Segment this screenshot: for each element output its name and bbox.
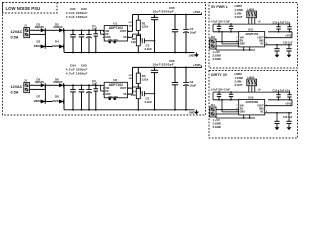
wire SS pin (ch2) — [128, 87, 133, 94]
dashed border block DIRTY 3V — [209, 71, 298, 139]
wire positive rail (ch1) — [64, 29, 104, 31]
op-amp regulator U1 — [103, 21, 129, 41]
wire U10 output (DIRTY 3V) — [265, 100, 292, 106]
wire U11 sense rail right (5V PWR L) — [265, 42, 293, 46]
svg-text:3:GND: 3:GND — [213, 125, 221, 129]
svg-text:0.5A: 0.5A — [11, 36, 19, 40]
wire VOUT to output rail (ch2) — [128, 67, 134, 88]
svg-text:2:GND: 2:GND — [213, 54, 221, 58]
label block title DIRTY 3V — [211, 73, 228, 77]
wire AC2 (ch2) — [30, 88, 46, 90]
svg-text:ADM7150: ADM7150 — [245, 32, 258, 36]
wire J11 to U10 (DIRTY 3V) — [216, 99, 239, 118]
svg-text:D4: D4 — [55, 40, 59, 44]
svg-text:U1: U1 — [113, 21, 117, 25]
svg-text:DIRTY 3V: DIRTY 3V — [211, 73, 228, 77]
wire J10 to U11 (5V PWR L) — [216, 31, 239, 50]
svg-text:RB520: RB520 — [54, 80, 63, 84]
diode D3 — [34, 40, 46, 49]
capacitor C63 — [79, 85, 85, 110]
capacitor C2 — [94, 85, 99, 110]
svg-text:1:+5V: 1:+5V — [213, 118, 220, 122]
svg-text:LM50: LM50 — [235, 72, 243, 76]
junction dots ground rail (ch1) — [72, 52, 187, 54]
svg-text:5V PWR L: 5V PWR L — [211, 5, 229, 9]
capacitor input pair left (DIRTY 3V) — [211, 89, 233, 100]
wire U11 output (5V PWR L) — [265, 32, 292, 38]
label capacitor C2 value — [92, 79, 97, 86]
svg-text:NC: NC — [260, 112, 264, 114]
diode D2 — [54, 22, 64, 32]
wire U11 gnd down (5V PWR L) — [216, 47, 255, 51]
text 12VAC 0.5A input label (ch1) — [11, 30, 23, 40]
capacitor C7 — [172, 15, 178, 53]
junction dots right caps (DIRTY 3V) — [278, 91, 291, 100]
svg-text:D8: D8 — [55, 95, 59, 99]
label block title 5V PWR L — [211, 5, 229, 9]
pin GND stubs below U2 — [108, 96, 118, 100]
diode D7 — [34, 95, 46, 104]
svg-text:VIN: VIN — [240, 38, 244, 40]
wire bridge right vertical (ch1) — [63, 30, 65, 52]
label LM50 pin list (5V PWR L) — [235, 4, 243, 19]
capacitor C8 output rail — [151, 67, 158, 109]
svg-text:J11: J11 — [211, 103, 216, 107]
label caps C61 C62 values — [66, 7, 88, 19]
svg-text:4.7uF 1500uF: 4.7uF 1500uF — [66, 15, 88, 19]
diode D4 — [52, 40, 63, 49]
capacitor output pair to ground (5V PWR L) — [274, 45, 291, 58]
svg-text:C15 4.7uF C14: C15 4.7uF C14 — [273, 90, 291, 93]
label J10 pin list (5V PWR L) — [213, 50, 221, 61]
capacitor C4 output rail — [151, 15, 158, 53]
svg-text:SS: SS — [123, 36, 127, 39]
svg-text:D7: D7 — [37, 95, 41, 99]
connector J11 (DIRTY 3V) — [210, 103, 216, 117]
svg-text:RB520: RB520 — [35, 25, 44, 29]
svg-text:3:OUT: 3:OUT — [235, 15, 243, 19]
svg-text:VIN: VIN — [240, 106, 244, 108]
svg-text:4.7uF 25V 4.7uF: 4.7uF 25V 4.7uF — [211, 21, 230, 24]
label output net +5VA — [193, 10, 201, 14]
svg-text:2:VIN: 2:VIN — [235, 12, 242, 16]
svg-text:3:GND: 3:GND — [213, 57, 221, 61]
svg-text:2.2uF: 2.2uF — [145, 100, 153, 104]
svg-text:+5VB: +5VB — [193, 63, 202, 67]
junction dots output rail (ch2) — [154, 67, 187, 69]
svg-text:LM50: LM50 — [248, 75, 255, 79]
svg-text:10uF/2200pF: 10uF/2200pF — [153, 10, 174, 14]
svg-text:C15 4.7uF C14: C15 4.7uF C14 — [273, 22, 291, 25]
capacitor output pair to ground (DIRTY 3V) — [274, 113, 291, 130]
wire divider junction (ch2) — [133, 83, 139, 88]
svg-text:D3: D3 — [37, 40, 41, 44]
capacitor C5 electrolytic — [183, 15, 196, 53]
wire U10 sense rail right (DIRTY 3V) — [265, 112, 293, 119]
capacitor C62 — [79, 30, 85, 52]
svg-text:4.7uF 1500uF: 4.7uF 1500uF — [66, 72, 88, 76]
wire U10 gnd down (DIRTY 3V) — [216, 115, 255, 119]
svg-text:121k: 121k — [142, 25, 149, 29]
junction dots ground rail (ch2) — [72, 109, 187, 111]
svg-text:EN: EN — [240, 109, 244, 111]
junction dots positive rail (ch2) — [63, 84, 97, 86]
ground rail (ch2) — [64, 109, 195, 111]
pin GND stubs below U1 — [108, 40, 118, 44]
svg-text:VOUT: VOUT — [120, 87, 127, 90]
svg-text:VOUT: VOUT — [257, 106, 264, 108]
wire sensor pins down (5V PWR L) — [249, 18, 261, 24]
wire upper distribution rail (5V PWR L) — [213, 23, 290, 25]
svg-text:J10: J10 — [211, 35, 216, 39]
svg-text:RB520: RB520 — [54, 25, 63, 29]
svg-text:4.7uF 25V 4.7uF: 4.7uF 25V 4.7uF — [211, 89, 230, 92]
wire left lower rail (5V PWR L) — [213, 24, 239, 32]
wire left lower rail (DIRTY 3V) — [213, 92, 239, 100]
svg-text:+5VD: +5VD — [285, 34, 292, 38]
wire positive rail (ch2) — [64, 84, 104, 86]
diode D8 — [52, 95, 63, 104]
svg-text:3:OUT: 3:OUT — [235, 83, 243, 87]
wire bridge row2 (ch1) — [34, 46, 64, 48]
resistor R3 — [136, 67, 148, 83]
wire bridge top mid (ch1) — [45, 29, 59, 31]
svg-text:GND: GND — [240, 112, 245, 114]
junction dots output rail (ch1) — [154, 14, 187, 16]
svg-text:0.5A: 0.5A — [11, 91, 19, 95]
svg-text:12VAC: 12VAC — [11, 30, 23, 34]
wire sensor pins down (DIRTY 3V) — [249, 86, 261, 92]
svg-text:121k: 121k — [142, 78, 149, 82]
svg-text:2:GND: 2:GND — [213, 122, 221, 126]
dashed border block 5V PWR L — [209, 3, 298, 69]
svg-text:10uF: 10uF — [190, 30, 197, 34]
junction dots left caps (DIRTY 3V) — [218, 91, 232, 100]
svg-text:1:+5V: 1:+5V — [213, 50, 220, 54]
svg-text:EN: EN — [240, 41, 244, 43]
svg-text:2:VIN: 2:VIN — [235, 80, 242, 84]
capacitor C64 — [70, 85, 76, 110]
svg-text:12k: 12k — [131, 40, 136, 44]
wire SS pin (ch1) — [128, 35, 133, 38]
label output caps C66 value (ch2) — [153, 59, 175, 67]
capacitor C9 — [172, 67, 178, 109]
svg-text:LM50: LM50 — [235, 4, 243, 8]
label output net +5VB — [193, 63, 202, 67]
svg-text:GND GND: GND GND — [108, 40, 118, 42]
ground symbol (ch2) — [189, 110, 199, 115]
capacitor pair right (DIRTY 3V) — [268, 90, 292, 100]
svg-text:LM50: LM50 — [248, 7, 255, 11]
connector J10 (5V PWR L) — [210, 35, 216, 49]
svg-text:GND: GND — [189, 53, 195, 57]
svg-text:12VAC: 12VAC — [11, 85, 23, 89]
svg-text:1:GND: 1:GND — [235, 8, 243, 12]
capacitor C6 electrolytic — [183, 67, 196, 109]
svg-text:SNS: SNS — [129, 25, 134, 27]
wire bridge row2 (ch2) — [34, 101, 64, 103]
svg-text:NC: NC — [260, 44, 264, 46]
wire EN pin jog (ch2) — [101, 85, 105, 91]
svg-text:SS: SS — [123, 93, 127, 96]
connector J2 — [24, 78, 30, 92]
svg-text:U11: U11 — [248, 28, 254, 32]
svg-text:OUT: OUT — [129, 75, 134, 77]
label J11 pin list (DIRTY 3V) — [213, 118, 221, 129]
svg-text:LOW NOISE PSU: LOW NOISE PSU — [6, 6, 41, 11]
wire AC2 (ch1) — [30, 33, 46, 35]
op-amp regulator U10 (DIRTY 3V) — [236, 96, 268, 115]
wire EN pin jog (ch1) — [101, 30, 105, 34]
svg-text:GND: GND — [189, 111, 195, 115]
left block title box — [3, 3, 58, 14]
capacitor C61 — [70, 30, 76, 52]
wire upper distribution rail (DIRTY 3V) — [213, 91, 290, 93]
svg-text:RB520: RB520 — [35, 80, 44, 84]
svg-text:10uF: 10uF — [190, 83, 197, 87]
junction dots left caps (5V PWR L) — [218, 23, 232, 32]
svg-text:+5VA: +5VA — [193, 10, 201, 14]
transistor LM50 sensor (5V PWR L) — [247, 7, 257, 17]
label capacitor C1 value — [92, 24, 97, 31]
resistor R1 — [136, 15, 148, 31]
svg-text:OUT: OUT — [129, 22, 134, 24]
wire VOUT to output rail (ch1) — [128, 15, 134, 32]
svg-text:VOUT: VOUT — [257, 38, 264, 40]
connector J1 — [24, 23, 30, 37]
transistor LM50 sensor (DIRTY 3V) — [247, 75, 257, 85]
svg-text:ADP3338: ADP3338 — [245, 100, 258, 104]
capacitor pair right (5V PWR L) — [268, 22, 292, 32]
output rail (ch2) — [133, 66, 202, 68]
svg-text:VOUT: VOUT — [120, 30, 127, 33]
label output caps C65 value (ch1) — [153, 6, 175, 14]
left block dashed border LOW NOISE PSU — [3, 3, 206, 116]
svg-text:GND: GND — [240, 44, 245, 46]
wire AC1 (ch1) — [30, 29, 41, 31]
svg-text:1:GND: 1:GND — [235, 76, 243, 80]
op-amp regulator U11 (5V PWR L) — [236, 28, 268, 47]
capacitor bulk electrolytic (ch2) — [86, 85, 92, 110]
output rail (ch1) — [133, 13, 202, 15]
svg-text:GND GND: GND GND — [108, 96, 118, 98]
diode D5 — [35, 77, 45, 87]
wire AC1 (ch2) — [30, 84, 41, 86]
wire bridge right vertical (ch2) — [63, 85, 65, 110]
diode D6 — [54, 77, 64, 87]
svg-text:+3V3: +3V3 — [285, 102, 292, 106]
resistor R2 — [131, 36, 140, 53]
junction dots right caps (5V PWR L) — [278, 23, 291, 32]
svg-text:SNS: SNS — [259, 41, 264, 43]
svg-text:C16 1uF: C16 1uF — [283, 116, 293, 119]
ground rail (ch1) — [64, 52, 195, 54]
svg-text:C16 1uF: C16 1uF — [283, 42, 293, 45]
capacitor C3 across R2 — [138, 34, 155, 51]
svg-text:2.2uF: 2.2uF — [145, 47, 153, 51]
label LM50 pin list (DIRTY 3V) — [235, 72, 243, 87]
capacitor C5 across R4 — [138, 87, 155, 104]
svg-text:10uF/2200pF: 10uF/2200pF — [153, 63, 174, 67]
svg-text:U2: U2 — [113, 78, 117, 82]
resistor R4 — [131, 88, 140, 109]
svg-text:SNS: SNS — [129, 78, 134, 80]
wire bridge vertical mid (ch2) — [44, 85, 46, 101]
svg-text:SNS: SNS — [259, 109, 264, 111]
capacitor C1 — [94, 30, 99, 52]
ground symbol (ch1) — [189, 53, 199, 58]
diode D1 — [35, 22, 45, 32]
capacitor input pair left (5V PWR L) — [211, 21, 233, 32]
junction dots positive rail (ch1) — [63, 29, 97, 31]
wire bridge top mid (ch2) — [45, 84, 59, 86]
wire bridge vertical mid (ch1) — [44, 30, 46, 46]
svg-text:12k: 12k — [131, 93, 136, 97]
op-amp regulator U2 — [103, 78, 129, 98]
label caps C64 C63 values — [66, 63, 88, 75]
text 12VAC 0.5A input label (ch2) — [11, 85, 23, 95]
wire divider junction (ch1) — [133, 31, 139, 36]
capacitor bulk electrolytic (ch1) — [86, 30, 92, 52]
svg-text:U10: U10 — [248, 96, 254, 100]
